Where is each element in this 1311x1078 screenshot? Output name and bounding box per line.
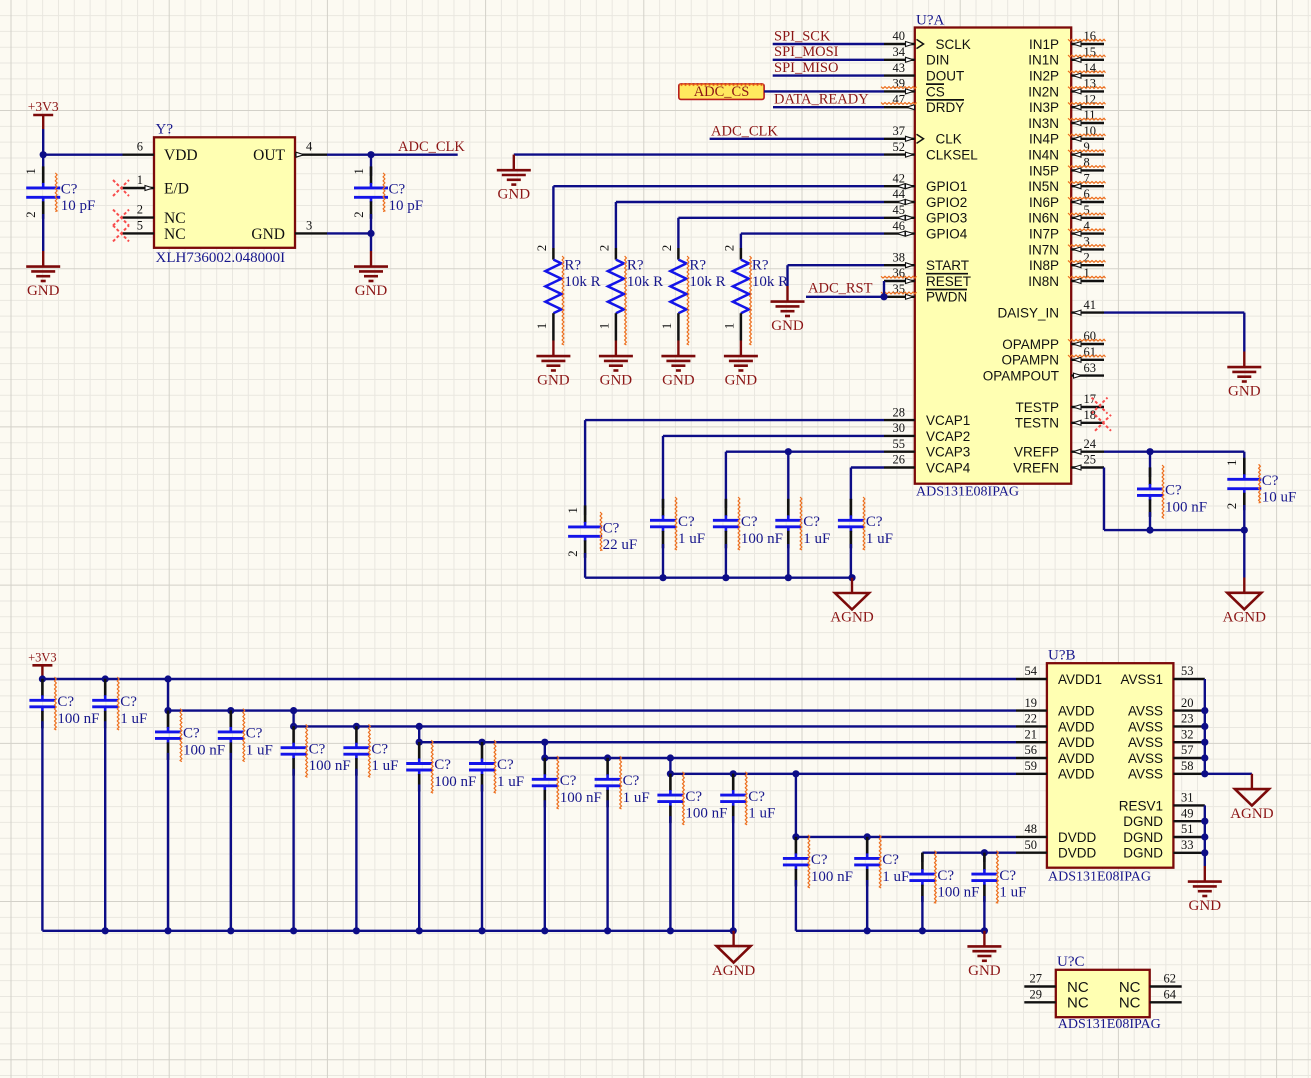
svg-text:RESET: RESET — [926, 274, 971, 289]
svg-text:OPAMPN: OPAMPN — [1001, 353, 1059, 368]
U1A pin 2 (IN8P) — [1029, 250, 1106, 273]
junction rail3/C14 — [290, 723, 297, 730]
svg-text:100 nF: 100 nF — [685, 806, 727, 822]
IC U1B body ADS131E08IPAG — [1047, 648, 1174, 885]
junction rail3/feed4 — [416, 723, 423, 730]
ground GND (CLKSEL) — [497, 155, 531, 203]
svg-text:IN3N: IN3N — [1028, 116, 1059, 131]
svg-text:RESV1: RESV1 — [1119, 798, 1163, 813]
capacitor C12 100 nF — [155, 710, 225, 930]
U1B pin 53 (AVSS1) — [1120, 664, 1204, 687]
svg-text:SPI_SCK: SPI_SCK — [774, 28, 831, 44]
svg-text:34: 34 — [893, 45, 906, 59]
svg-text:1: 1 — [721, 323, 736, 330]
svg-text:43: 43 — [893, 61, 906, 75]
svg-text:VDD: VDD — [164, 147, 198, 164]
junction VCAP3/C6 — [785, 448, 792, 455]
svg-text:100 nF: 100 nF — [937, 885, 979, 901]
svg-text:51: 51 — [1181, 822, 1194, 836]
junction rail1/C11 — [102, 675, 109, 682]
wire AVDD rail2 — [168, 679, 1016, 711]
wire GPIO3 to R3 — [678, 218, 884, 248]
capacitor C2 10 pF — [351, 155, 423, 219]
ground GND (R4) — [724, 341, 758, 389]
svg-text:46: 46 — [893, 219, 906, 233]
svg-text:10 pF: 10 pF — [61, 198, 96, 214]
svg-text:45: 45 — [893, 203, 906, 217]
svg-text:57: 57 — [1181, 743, 1194, 757]
U1A pin 55 (VCAP3) — [884, 437, 970, 460]
junction AVSS 726 — [1201, 723, 1208, 730]
svg-text:10k R: 10k R — [689, 274, 725, 290]
junction rail1/feed2 — [164, 675, 171, 682]
svg-text:OPAMPOUT: OPAMPOUT — [983, 369, 1059, 384]
junction rail6/C20 — [667, 770, 674, 777]
wire C2 to GND pin3 — [327, 214, 371, 233]
svg-text:2: 2 — [565, 550, 580, 557]
wire GPIO2 to R2 — [616, 202, 884, 248]
svg-text:R?: R? — [752, 258, 769, 274]
wire CLKSEL to GND — [514, 153, 884, 155]
svg-text:52: 52 — [893, 140, 906, 154]
junction bottom rail c7 — [478, 927, 485, 934]
junction OUT/C2 — [367, 151, 374, 158]
svg-text:ADS131E08IPAG: ADS131E08IPAG — [1048, 870, 1151, 885]
junction DVDD rail/C24 — [919, 927, 926, 934]
svg-text:C?: C? — [741, 514, 758, 530]
capacitor C23 1 uF — [854, 837, 909, 931]
junction bottom rail c2 — [164, 927, 171, 934]
U1A pin 14 (IN2P) — [1029, 61, 1106, 84]
resistor R3 10k — [659, 245, 726, 341]
svg-text:4: 4 — [306, 140, 313, 154]
svg-text:100 nF: 100 nF — [741, 531, 783, 547]
svg-text:R?: R? — [564, 258, 581, 274]
svg-text:1: 1 — [137, 173, 143, 187]
svg-text:NC: NC — [164, 226, 186, 243]
squiggle C18 — [557, 756, 559, 809]
junction bottom rail c5 — [353, 927, 360, 934]
svg-text:1 uF: 1 uF — [999, 885, 1026, 901]
svg-text:100 nF: 100 nF — [560, 790, 602, 806]
svg-text:1 uF: 1 uF — [246, 742, 273, 758]
svg-text:IN4P: IN4P — [1029, 132, 1059, 147]
resistor R4 10k — [721, 245, 788, 341]
Y1 pin 6 (VDD) — [123, 140, 198, 165]
capacitor C17 1 uF — [469, 742, 524, 931]
power +3V3 (rail) — [28, 651, 57, 680]
svg-text:SCLK: SCLK — [936, 37, 971, 52]
svg-text:C?: C? — [1262, 473, 1279, 489]
U1B pin 58 (AVSS) — [1128, 759, 1205, 782]
wire AVDD rail5 — [545, 742, 1016, 758]
ground AGND (VREF) — [1223, 578, 1266, 626]
wire C1 to GND — [42, 214, 44, 251]
svg-text:2: 2 — [721, 245, 736, 252]
junction bottom rail c8 — [541, 927, 548, 934]
svg-text:33: 33 — [1181, 838, 1194, 852]
Y1 pin 4 (OUT) — [253, 140, 327, 165]
junction rail2/feed3 — [290, 707, 297, 714]
U1C pin 62 (NC) — [1119, 972, 1182, 996]
svg-text:C?: C? — [560, 773, 577, 789]
junction VREF rail/C8 — [1146, 527, 1153, 534]
U1B pin 49 (DGND) — [1123, 806, 1205, 829]
svg-text:64: 64 — [1164, 988, 1177, 1002]
svg-text:GPIO2: GPIO2 — [926, 195, 967, 210]
Y1 pin 5 (NC) — [113, 218, 186, 243]
capacitor C1 10 pF — [23, 155, 95, 219]
wire AVDD rail6 — [670, 758, 1016, 774]
svg-text:PWDN: PWDN — [926, 290, 967, 305]
svg-text:1 uF: 1 uF — [748, 806, 775, 822]
U1A pin 37 (CLK) — [884, 124, 962, 147]
svg-text:6: 6 — [137, 140, 143, 154]
svg-text:U?C: U?C — [1057, 954, 1085, 970]
ground AGND (cap bank) — [712, 931, 755, 979]
svg-text:ADC_RST: ADC_RST — [808, 280, 873, 296]
net label DATA_READY — [774, 91, 869, 107]
Y1 pin 3 (GND) — [251, 218, 327, 243]
squiggle C21 — [745, 772, 747, 825]
squiggle C3 — [600, 512, 602, 551]
U1A pin 45 (GPIO3) — [884, 203, 967, 226]
svg-text:IN1N: IN1N — [1028, 53, 1059, 68]
junction rail1/C10 — [39, 675, 46, 682]
svg-text:AVSS: AVSS — [1128, 751, 1163, 766]
svg-text:GND: GND — [27, 283, 60, 299]
svg-text:GND: GND — [771, 318, 804, 334]
junction AVSS 711 — [1201, 707, 1208, 714]
svg-text:IN8P: IN8P — [1029, 258, 1059, 273]
svg-text:100 nF: 100 nF — [1165, 499, 1207, 515]
squiggle C9 — [1259, 464, 1261, 503]
capacitor C16 100 nF — [406, 742, 476, 931]
svg-text:GND: GND — [1189, 898, 1222, 914]
U1A pin 35 (PWDN) — [881, 282, 967, 305]
svg-text:OPAMPP: OPAMPP — [1002, 337, 1059, 352]
svg-text:40: 40 — [893, 29, 906, 43]
squiggle C12 — [180, 709, 182, 762]
junction bottom rail c11 — [730, 927, 737, 934]
svg-text:21: 21 — [1025, 727, 1038, 741]
junction ADC_RST — [880, 293, 887, 300]
U1A pin 9 (IN4N) — [1028, 140, 1105, 163]
svg-text:START: START — [926, 258, 969, 273]
svg-text:48: 48 — [1025, 822, 1038, 836]
svg-text:100 nF: 100 nF — [434, 774, 476, 790]
svg-text:C?: C? — [866, 514, 883, 530]
svg-text:VCAP2: VCAP2 — [926, 429, 970, 444]
svg-text:AGND: AGND — [1223, 610, 1266, 626]
svg-text:5: 5 — [137, 218, 143, 232]
svg-text:C?: C? — [57, 694, 74, 710]
svg-text:C?: C? — [678, 514, 695, 530]
svg-text:100 nF: 100 nF — [183, 742, 225, 758]
U1A pin 7 (IN5N) — [1028, 171, 1105, 194]
svg-text:GND: GND — [662, 373, 695, 389]
wire SPI_SCK — [773, 43, 884, 45]
svg-text:29: 29 — [1030, 988, 1043, 1002]
wire VCAP4 — [851, 468, 884, 501]
ground GND (DAISY_IN) — [1227, 352, 1261, 400]
svg-text:56: 56 — [1025, 743, 1038, 757]
net label ADC_CLK (CLK pin) — [711, 123, 778, 139]
wire DAISY_IN to GND — [1104, 313, 1244, 352]
no-connect X TESTP — [1092, 398, 1108, 414]
svg-text:20: 20 — [1181, 696, 1194, 710]
svg-text:53: 53 — [1181, 664, 1194, 678]
svg-text:49: 49 — [1181, 806, 1194, 820]
svg-text:AGND: AGND — [830, 610, 873, 626]
svg-text:C?: C? — [748, 789, 765, 805]
svg-text:41: 41 — [1084, 298, 1097, 312]
svg-text:IN6P: IN6P — [1029, 195, 1059, 210]
ground GND (START) — [771, 286, 805, 334]
squiggle C14 — [306, 724, 308, 777]
svg-text:CLKSEL: CLKSEL — [926, 148, 978, 163]
U1A pin 18 (TESTN) — [1015, 408, 1104, 431]
svg-text:10 pF: 10 pF — [389, 198, 424, 214]
capacitor C20 100 nF — [657, 774, 727, 931]
U1A pin 47 (DRDY) — [881, 92, 964, 115]
svg-text:NC: NC — [164, 210, 186, 227]
U1A pin 52 (CLKSEL) — [884, 140, 978, 163]
squiggle C11 — [117, 677, 119, 730]
svg-text:XLH736002.048000I: XLH736002.048000I — [156, 250, 286, 266]
svg-text:C?: C? — [1165, 483, 1182, 499]
svg-text:AVDD: AVDD — [1058, 751, 1095, 766]
U1A pin 5 (IN6N) — [1028, 203, 1105, 226]
capacitor C21 1 uF — [720, 774, 775, 931]
U1B pin 57 (AVSS) — [1128, 743, 1205, 766]
svg-text:2: 2 — [534, 245, 549, 252]
svg-text:59: 59 — [1025, 759, 1038, 773]
U1C pin 64 (NC) — [1119, 988, 1182, 1012]
svg-text:C?: C? — [434, 757, 451, 773]
ground GND (C1) — [26, 251, 60, 299]
Y1 pin 1 (E/D) — [113, 173, 189, 198]
wire DATA_READY — [773, 106, 884, 108]
svg-text:27: 27 — [1030, 972, 1043, 986]
svg-text:C?: C? — [309, 741, 326, 757]
wire VREFN to rail — [1104, 468, 1244, 531]
squiggle C22 — [808, 835, 810, 888]
svg-text:IN7N: IN7N — [1028, 242, 1059, 257]
squiggle C5 — [738, 497, 740, 550]
svg-text:E/D: E/D — [164, 181, 189, 198]
U1A pin 39 (CS) — [881, 77, 945, 100]
svg-text:GND: GND — [355, 283, 388, 299]
svg-text:31: 31 — [1181, 791, 1194, 805]
wire DVDD2 — [922, 853, 1016, 862]
svg-text:1 uF: 1 uF — [120, 711, 147, 727]
U1B pin 59 (AVDD) — [1016, 759, 1095, 782]
svg-text:1 uF: 1 uF — [497, 774, 524, 790]
junction bottom rail c10 — [667, 927, 674, 934]
svg-text:3: 3 — [306, 218, 312, 232]
capacitor C22 100 nF — [783, 837, 853, 931]
wire AVDD1 rail — [42, 677, 1016, 679]
squiggle C19 — [620, 756, 622, 809]
junction rail/C5 — [722, 574, 729, 581]
svg-text:NC: NC — [1119, 979, 1141, 996]
junction bottom rail c9 — [604, 927, 611, 934]
capacitor C7 1 uF — [838, 499, 893, 578]
svg-text:AGND: AGND — [1230, 806, 1273, 822]
ground GND (DGND) — [1188, 866, 1222, 914]
svg-text:SPI_MISO: SPI_MISO — [774, 60, 838, 76]
junction rail/AGND — [848, 574, 855, 581]
U1B pin 23 (AVSS) — [1128, 712, 1205, 735]
net label ADC_CS (highlighted) — [679, 84, 764, 100]
squiggle C20 — [683, 772, 685, 825]
squiggle R2 — [625, 256, 627, 345]
svg-text:AVSS: AVSS — [1128, 735, 1163, 750]
svg-text:GND: GND — [251, 226, 285, 243]
svg-text:VREFP: VREFP — [1014, 445, 1059, 460]
svg-text:55: 55 — [893, 437, 906, 451]
junction bottom rail c4 — [290, 927, 297, 934]
wire VCAP3 — [726, 452, 884, 500]
svg-text:OUT: OUT — [253, 147, 285, 164]
svg-text:25: 25 — [1084, 453, 1097, 467]
svg-text:50: 50 — [1025, 838, 1038, 852]
U1C pin 27 (NC) — [1024, 972, 1089, 996]
svg-text:DAISY_IN: DAISY_IN — [997, 306, 1059, 321]
net label SPI_SCK — [774, 28, 831, 44]
U1B pin 19 (AVDD) — [1016, 696, 1095, 719]
svg-text:AVSS: AVSS — [1128, 704, 1163, 719]
svg-text:DATA_READY: DATA_READY — [774, 91, 869, 107]
crystal Y1 body — [154, 122, 295, 267]
svg-text:AVDD: AVDD — [1058, 735, 1095, 750]
svg-text:AVSS: AVSS — [1128, 767, 1163, 782]
svg-text:C?: C? — [389, 182, 406, 198]
svg-text:DRDY: DRDY — [926, 100, 964, 115]
svg-text:32: 32 — [1181, 727, 1194, 741]
svg-text:DGND: DGND — [1123, 846, 1163, 861]
squiggle C15 — [369, 724, 371, 777]
wire VCAP2 — [663, 436, 884, 500]
squiggle C7 — [863, 497, 865, 550]
squiggle C8 — [1162, 465, 1164, 519]
svg-text:1 uF: 1 uF — [371, 758, 398, 774]
wire ADC_CLK to CLK — [710, 138, 884, 140]
svg-text:GND: GND — [725, 373, 758, 389]
svg-text:42: 42 — [893, 171, 906, 185]
wire C6 up to VCAP3 — [787, 452, 789, 500]
svg-text:C?: C? — [685, 789, 702, 805]
svg-text:18: 18 — [1084, 408, 1097, 422]
capacitor C13 1 uF — [218, 710, 273, 930]
svg-text:NC: NC — [1067, 995, 1089, 1012]
svg-text:GPIO4: GPIO4 — [926, 227, 968, 242]
wire ADC_RST to RESET/PWDN — [806, 281, 884, 297]
ground GND (R1) — [536, 341, 570, 389]
no-connect X TESTN — [1095, 415, 1111, 431]
U1A pin 63 (OPAMPOUT) — [983, 361, 1104, 384]
svg-text:TESTP: TESTP — [1015, 400, 1059, 415]
U1A pin 25 (VREFN) — [1013, 453, 1104, 476]
wire ADC_CS to CS — [764, 90, 884, 92]
svg-text:IN1P: IN1P — [1029, 37, 1059, 52]
wire VREFP — [1104, 452, 1244, 470]
svg-text:1 uF: 1 uF — [866, 531, 893, 547]
svg-text:DVDD: DVDD — [1058, 846, 1097, 861]
junction rail5/C18 — [541, 754, 548, 761]
svg-text:1 uF: 1 uF — [803, 531, 830, 547]
wire GPIO4 to R4 — [741, 234, 884, 248]
svg-text:DGND: DGND — [1123, 830, 1163, 845]
capacitor C19 1 uF — [595, 758, 650, 931]
svg-text:2: 2 — [351, 211, 366, 218]
svg-text:38: 38 — [893, 250, 906, 264]
U1A pin 61 (OPAMPN) — [1001, 345, 1105, 368]
svg-text:CLK: CLK — [936, 132, 962, 147]
capacitor C24 100 nF — [909, 853, 979, 931]
svg-text:10k R: 10k R — [752, 274, 788, 290]
svg-text:2: 2 — [137, 203, 143, 217]
ground AGND (VCAP) — [830, 578, 873, 626]
junction bottom rail c3 — [227, 927, 234, 934]
svg-text:10 uF: 10 uF — [1262, 490, 1297, 506]
U1A pin 38 (START) — [884, 250, 969, 273]
U1B pin 54 (AVDD1) — [1016, 664, 1102, 687]
VCAP ground rail — [585, 577, 852, 579]
U1B pin 31 (RESV1) — [1119, 791, 1205, 814]
U1A pin 17 (TESTP) — [1015, 392, 1104, 415]
wire AVSS bus — [1204, 679, 1206, 774]
svg-text:TESTN: TESTN — [1015, 416, 1059, 431]
capacitor C3 22 uF — [565, 500, 637, 578]
U1A pin 60 (OPAMPP) — [1002, 329, 1105, 352]
svg-text:2: 2 — [1224, 503, 1239, 510]
svg-text:NC: NC — [1119, 995, 1141, 1012]
svg-text:AVSS1: AVSS1 — [1120, 672, 1163, 687]
svg-text:IN6N: IN6N — [1028, 211, 1059, 226]
capacitor C14 100 nF — [281, 726, 351, 931]
junction rail2/C12 — [164, 707, 171, 714]
svg-text:Y?: Y? — [156, 122, 174, 138]
capacitor C18 100 nF — [532, 758, 602, 931]
squiggle C13 — [243, 709, 245, 762]
svg-text:IN5P: IN5P — [1029, 163, 1059, 178]
svg-text:22 uF: 22 uF — [603, 537, 638, 553]
svg-text:10k R: 10k R — [564, 274, 600, 290]
svg-text:C?: C? — [61, 182, 78, 198]
svg-text:AVDD: AVDD — [1058, 719, 1095, 734]
junction rail5/C19 — [604, 754, 611, 761]
svg-text:IN4N: IN4N — [1028, 148, 1059, 163]
ground AGND (AVSS) — [1230, 774, 1273, 822]
svg-text:+3V3: +3V3 — [28, 99, 59, 114]
wire down to GND (C2) — [370, 233, 372, 251]
svg-text:VCAP4: VCAP4 — [926, 460, 971, 475]
net label SPI_MOSI — [774, 44, 839, 60]
Y1 pin 2 (NC) — [113, 203, 186, 228]
junction VREF rail/AGND — [1241, 527, 1248, 534]
svg-text:1: 1 — [351, 168, 366, 175]
U1A pin 4 (IN7P) — [1029, 219, 1106, 242]
power +3V3 (crystal) — [28, 99, 59, 129]
svg-text:VCAP3: VCAP3 — [926, 445, 970, 460]
svg-text:30: 30 — [893, 421, 906, 435]
junction DGND 51 — [1201, 833, 1208, 840]
IC U1A body ADS131E08IPAG — [915, 13, 1071, 500]
svg-text:C?: C? — [623, 773, 640, 789]
U1A pin 24 (VREFP) — [1014, 437, 1104, 460]
